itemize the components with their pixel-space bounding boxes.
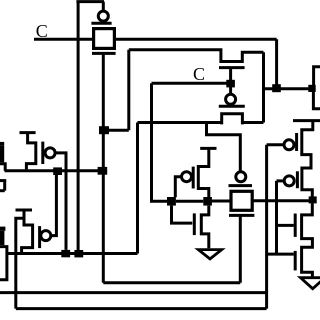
transistor M2 bubble [41,231,51,241]
wire Q1 gate lead [267,143,284,146]
transmission gate U1 bubble stem [102,2,105,11]
transistor Q2 bubble [284,176,294,186]
wire ML3 source jog [0,247,7,280]
wire vertical from top bar down left side [77,2,80,251]
wire branch under TG2 [207,123,241,172]
transistor ML-edge drain bar [0,179,6,182]
wire ML2 drain link [16,218,24,308]
transistor ML3 channel stub [0,231,4,245]
transistor Q2 gate line [296,171,299,188]
ground triangle (right) [301,278,320,289]
transistor ML3 bar stub [0,227,5,231]
wire bottom horizontal to TG3 stem [103,281,240,284]
node junction TG1 out vertical [272,84,281,92]
transistor Q1 gate line [295,133,298,151]
inverter VDD bar [200,147,216,150]
transmission gate U3 top gate bar [229,184,253,187]
transmission gate U1 bottom gate bar [92,52,116,55]
node C label (left) [36,21,48,41]
wire M4 gate branch [172,206,193,224]
wire vertical up to clock rail [127,50,130,131]
transmission gate U2 PMOS bubble [226,94,236,104]
node junction inverter input [167,197,176,206]
transistor Q1 Q2 channel path [302,121,313,197]
transistor M1 bubble [45,148,55,158]
wire TG1 NMOS gate vertical [102,53,105,282]
transistor Q3 gate line [294,214,297,237]
transistor M3 gate line [192,167,195,189]
transmission gate U2 bubble stem [229,87,232,94]
node junction left vertical bottom [74,250,83,257]
wire branch right from junction [104,129,129,132]
transistor Q3 Q4 channel path [302,203,313,278]
transistor ML-edge stem [3,181,6,191]
node junction left net on gate vertical [98,167,108,175]
wire TG2 output to VA [242,121,263,124]
transmission gate U2 lower gate bar [219,105,245,108]
wire TG1 out tap to right [264,87,310,90]
wire Q3 gate lead [277,224,294,227]
transistor M4 channel path [201,206,209,249]
node junction right tap [308,85,315,92]
transistor ML1 bar stub [0,142,4,145]
wire C input to TG1 [34,38,93,41]
wire exit right top [314,67,320,88]
wire Q2 gate lead [277,179,285,182]
transmission gate U2 gate stem [229,68,232,80]
svg-text:C: C [193,64,205,84]
wire vertical feedback from bottom [136,123,139,254]
wire bottom rail lower [16,307,267,310]
node junction M2 gate [53,167,62,175]
wire between junctions [176,200,203,203]
wire VA vertical down [262,52,265,122]
transmission gate U2 box [222,114,243,125]
transistor M2 gate line [38,226,41,248]
wire clock rail with dip over TG2 [129,50,264,62]
wire TG3 output [253,199,309,202]
transistor M1 VDD bar [20,131,36,134]
wire C net vertical down to inverter input [152,83,169,201]
transmission gate U3 bottom gate bar [229,214,254,217]
node C label (middle) [193,64,205,84]
transmission gate U1 box [94,29,115,49]
ground triangle (inverter) [198,250,221,259]
transmission gate U3 box [231,191,252,210]
node junction buffer mid [309,196,317,203]
transmission gate U1 PMOS bubble [98,11,108,21]
wire M2 gate lead up to junction [51,175,57,236]
transistor Q1 bubble [284,140,294,150]
wire M3 gate lead [175,177,181,198]
transmission gate U1 top gate bar [91,22,111,25]
transistor M3 channel path [198,148,209,197]
transistor M1 channel path [26,133,35,170]
wire TG1 output [115,38,277,41]
transistor M4 gate line [193,213,196,235]
transistor ML-edge jog [0,189,5,192]
transistor M2 VDD bar [16,209,33,212]
transistor Q4 gate line [294,251,297,271]
node junction on gate vertical [99,126,109,134]
node junction inverter output [203,197,212,206]
wire Q4 gate lead [267,253,294,256]
node junction M1 gate lead [61,250,70,257]
wire TG2 input [138,121,222,124]
transmission gate U3 PMOS bubble [236,172,246,182]
wire exit right upper [313,91,320,109]
transmission gate U2 upper gate bar [219,66,245,69]
wire right VDD rail [293,119,320,122]
wire TG3 bottom gate stem [239,215,242,282]
node junction on C wire at TG2 [226,80,235,88]
wire C net horizontal [152,82,228,85]
wire TG1 output corner down [275,39,278,84]
wire bottom feedback horizontal [7,252,138,255]
wire left net horizontal [5,169,99,172]
transistor M1 gate line [41,142,44,164]
wire VB buffer input vertical [265,145,268,309]
wire TG3 input [212,200,232,203]
transistor ML1 channel stub [0,145,4,162]
transistor M2 channel path [22,211,33,255]
wire M1 gate lead down to bottom wire [55,153,66,250]
wire top control bar [76,0,104,3]
wire ML1 source jog [0,164,5,171]
wire V2 vertical [275,181,278,254]
wire bottom rail upper [0,291,267,294]
transistor M3 bubble [182,172,192,182]
